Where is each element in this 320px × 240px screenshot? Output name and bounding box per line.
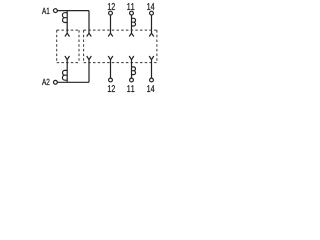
terminal 14 bottom bbox=[150, 78, 154, 82]
terminal 12 bottom bbox=[109, 78, 113, 82]
contact spring 11 bottom bbox=[132, 67, 136, 75]
terminal 11 bottom bbox=[130, 78, 134, 82]
coil K1 lower winding bbox=[62, 70, 67, 80]
plug contact fork (14 bottom) bbox=[149, 56, 154, 60]
terminal 11 bottom label bbox=[127, 85, 134, 92]
node A1 label bbox=[42, 8, 49, 14]
plug contact fork (12 top) bbox=[108, 33, 113, 36]
coil K1 upper winding bbox=[62, 13, 67, 23]
wire 12 bottom stem bbox=[110, 60, 112, 79]
relay contact compartment (dashed) bbox=[84, 30, 157, 63]
terminal A1 bbox=[54, 9, 58, 13]
relay coil compartment (dashed) bbox=[57, 30, 79, 63]
wire A1 horizontal bbox=[57, 10, 89, 12]
plug contact fork (11 top) bbox=[129, 33, 134, 36]
terminal 12 top bbox=[109, 11, 113, 15]
terminal A2 bbox=[54, 80, 58, 84]
plug contact fork (14 top) bbox=[149, 33, 154, 36]
terminal 12 top label bbox=[108, 3, 115, 10]
wire 12 top stem bbox=[110, 15, 112, 33]
wire A1 branch down bbox=[88, 11, 90, 34]
terminal 14 bottom label bbox=[147, 85, 154, 92]
wire 14 top stem bbox=[151, 15, 153, 33]
wire 11 top stem bbox=[131, 15, 133, 33]
wire coil stem bottom bbox=[66, 60, 68, 83]
contact spring 11 top bbox=[132, 18, 136, 26]
terminal 14 top bbox=[150, 11, 154, 15]
wire 11 bottom stem bbox=[131, 60, 133, 79]
terminal 14 top label bbox=[147, 3, 154, 10]
terminal 11 top bbox=[130, 11, 134, 15]
plug contact fork (coil top) bbox=[65, 33, 70, 36]
plug contact fork (11 bottom) bbox=[129, 56, 134, 60]
wire 14 bottom stem bbox=[151, 60, 153, 79]
node A2 label bbox=[42, 79, 49, 85]
plug contact fork (A1 branch) bbox=[87, 33, 92, 36]
terminal 11 top label bbox=[127, 3, 134, 10]
plug contact fork (coil bottom) bbox=[65, 56, 70, 60]
plug contact fork (12 bottom) bbox=[108, 56, 113, 60]
wire coil stem top bbox=[66, 11, 68, 34]
terminal 12 bottom label bbox=[108, 85, 115, 92]
plug contact fork (A2 branch) bbox=[87, 56, 92, 60]
wire A2 branch up bbox=[88, 60, 90, 83]
wire A2 horizontal bbox=[57, 81, 89, 83]
